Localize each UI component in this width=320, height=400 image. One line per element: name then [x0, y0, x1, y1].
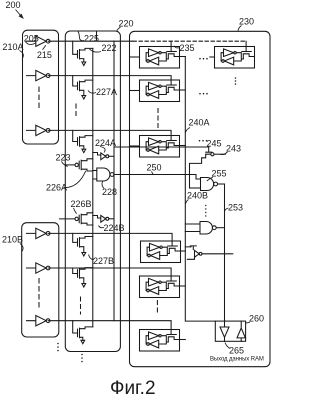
- leader 227B: [89, 255, 95, 260]
- leader 253: [225, 208, 229, 212]
- transistor T1 (222): [78, 48, 93, 65]
- svg-text:210B: 210B: [2, 235, 23, 245]
- svg-text:243: 243: [226, 144, 241, 154]
- leader 228: [102, 182, 104, 189]
- dots under 220: [81, 354, 83, 356]
- wire C1 right to bus A: [180, 56, 186, 58]
- dots under 210B: [57, 343, 59, 345]
- wire stub at box 220 top: [96, 31, 98, 40]
- leader 215: [43, 45, 46, 50]
- leader 240A: [186, 128, 191, 133]
- leader 250: [152, 172, 154, 176]
- inverter A1: [27, 36, 51, 46]
- dots under R1: [235, 77, 237, 79]
- gate drop T8: [73, 321, 78, 333]
- arrow for 200: [16, 10, 22, 17]
- ellipsis row 245: [199, 140, 201, 142]
- svg-text:Фиг.2: Фиг.2: [110, 378, 156, 399]
- wire L1 word line row1: [48, 40, 133, 42]
- wire C2 left: [130, 90, 140, 92]
- svg-text:253: 253: [228, 203, 243, 213]
- pass transistor T4 (223): [65, 159, 93, 171]
- transistor PB: [185, 246, 233, 259]
- gate drop T1: [73, 41, 78, 54]
- leader 260: [246, 321, 250, 324]
- ellipsis row2: [199, 93, 201, 95]
- svg-text:250: 250: [147, 163, 162, 173]
- inverter-driver P1 (224A): [93, 153, 114, 160]
- wire 250 nand output: [114, 175, 201, 180]
- svg-text:240B: 240B: [187, 191, 208, 201]
- line 253: [224, 184, 226, 321]
- leader 222: [90, 49, 102, 52]
- box 230: [130, 31, 271, 366]
- ram cell C3: [140, 136, 180, 158]
- leader 230: [238, 26, 242, 32]
- svg-text:220: 220: [119, 19, 134, 29]
- svg-text:255: 255: [212, 169, 227, 179]
- inverter-driver P2 (224B): [93, 215, 114, 222]
- leader 224A: [100, 147, 105, 153]
- buffer down triangle: [220, 321, 229, 341]
- wire L6 word line row6: [48, 321, 171, 335]
- svg-text:227A: 227A: [96, 87, 117, 97]
- leader 235: [174, 46, 180, 48]
- leader 255: [207, 177, 213, 181]
- transistor T6 (227B): [78, 237, 93, 257]
- ram cell R1: [215, 47, 255, 69]
- leader 243: [221, 152, 228, 155]
- leader 223: [62, 162, 68, 167]
- inverter A3: [27, 125, 51, 135]
- leader 225: [78, 31, 84, 40]
- pass transistor T5 (226B): [60, 213, 93, 225]
- leader 240B: [186, 200, 189, 205]
- ram cell C6: [140, 330, 180, 352]
- nand gate 255: [190, 178, 225, 191]
- svg-text:200: 200: [6, 0, 21, 10]
- box 210B: [22, 223, 59, 337]
- leader 220: [117, 27, 121, 32]
- svg-text:210A: 210A: [3, 42, 24, 52]
- wire C3 right to bus A: [180, 145, 186, 147]
- transistor 245: [190, 147, 226, 167]
- svg-text:240A: 240A: [189, 118, 210, 128]
- svg-text:205: 205: [24, 33, 39, 43]
- leader 205: [26, 42, 36, 45]
- nand gate 228: [93, 168, 114, 181]
- wire C1 left: [130, 56, 140, 58]
- wire C6 right to bus A: [180, 339, 186, 341]
- svg-text:223: 223: [56, 153, 71, 163]
- gate drop T2: [73, 76, 78, 86]
- wire C4 right to bus A: [181, 250, 186, 252]
- inverter B2: [27, 263, 51, 273]
- buffer up triangle: [237, 321, 245, 341]
- svg-text:227B: 227B: [93, 256, 114, 266]
- transistor T3: [78, 136, 93, 153]
- wire L5 word line row5: [48, 268, 171, 281]
- leader 210A: [20, 51, 24, 59]
- wire L1 drop to cell R1: [245, 41, 247, 51]
- svg-text:265: 265: [229, 346, 244, 356]
- output buffer box 265: [215, 321, 245, 341]
- dashes in box 220 lower: [80, 297, 82, 314]
- box 210A: [23, 30, 59, 144]
- wire L4 word line row4: [48, 233, 172, 246]
- wire L1 dashed continuation: [133, 40, 246, 42]
- inverter B1: [27, 228, 51, 238]
- leader 210B: [20, 244, 23, 252]
- transistor T2 (227A): [78, 80, 93, 99]
- wire C3 left: [130, 145, 140, 147]
- ram cell C1: [140, 47, 180, 69]
- bit bus A: [185, 57, 215, 322]
- ram cell C5: [140, 276, 180, 298]
- dashes in 210A: [38, 87, 40, 111]
- gate drop T3: [73, 130, 78, 141]
- svg-text:224A: 224A: [95, 138, 116, 148]
- svg-text:228: 228: [102, 187, 117, 197]
- leader arc 226A: [64, 171, 86, 188]
- svg-text:260: 260: [249, 314, 264, 324]
- dashes in box 220 upper: [75, 104, 77, 118]
- dotted column above nand2: [205, 205, 206, 206]
- svg-text:224B: 224B: [104, 223, 125, 233]
- dashes cells C5-C6: [156, 301, 158, 315]
- wire C5 right to bus A: [180, 285, 186, 287]
- leader 265: [225, 343, 230, 349]
- ram cell C2: [140, 80, 180, 102]
- svg-text:Выход данных RAM: Выход данных RAM: [210, 357, 264, 363]
- inverter A2: [27, 70, 51, 80]
- ram cell C4: [141, 241, 181, 263]
- wire L2 word line row2: [48, 76, 171, 85]
- wire L1 drop to cell C1: [170, 41, 172, 51]
- box 220: [65, 31, 120, 352]
- transistor T8: [78, 327, 93, 344]
- leader 224B: [99, 226, 105, 228]
- inverter B3: [27, 316, 51, 326]
- gate drop T7: [73, 268, 78, 274]
- vertical wire V1: [113, 41, 115, 321]
- leader 227A: [88, 91, 96, 94]
- dashes in 210B: [38, 279, 40, 309]
- svg-text:226B: 226B: [71, 199, 92, 209]
- wire R1 left stub: [210, 56, 215, 58]
- svg-text:215: 215: [37, 50, 52, 60]
- wire L3 word line row3: [48, 130, 171, 140]
- ellipsis row1: [199, 58, 201, 60]
- wire W245 from P1 to 245: [114, 146, 209, 148]
- svg-text:222: 222: [102, 43, 117, 53]
- transistor T7: [78, 268, 93, 287]
- svg-text:230: 230: [239, 17, 254, 27]
- dashes cells C2-C3: [157, 109, 159, 129]
- vertical bus V2 in box 220: [92, 48, 94, 327]
- gate drop T6: [73, 233, 78, 242]
- bus B short: [189, 167, 191, 188]
- nand gate 2: [185, 222, 224, 235]
- leader 226B: [74, 208, 77, 214]
- svg-text:235: 235: [180, 43, 195, 53]
- wire C2 right to bus A: [180, 89, 186, 91]
